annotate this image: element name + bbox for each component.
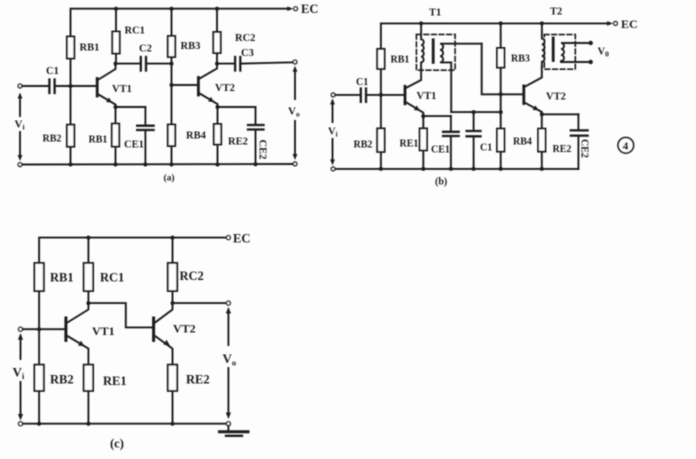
- svg-text:EC: EC: [301, 2, 318, 16]
- resistor RE1: [112, 124, 119, 147]
- wire: RC1 vertical: [87, 238, 89, 304]
- node: C1mid tap: [472, 110, 476, 114]
- transistor VT2 base bar: [197, 78, 200, 96]
- resistor RE2: [214, 124, 221, 145]
- wire: RB3/RB4 vertical: [500, 23, 502, 169]
- resistor RB1: [67, 37, 74, 59]
- VT1 collector: [406, 70, 421, 88]
- VT2 emitter: [200, 94, 218, 108]
- svg-text:VT2: VT2: [215, 83, 235, 94]
- svg-text:C1: C1: [46, 66, 59, 77]
- node: rail-T2: [540, 21, 544, 25]
- wire: RC1 vertical: [115, 9, 117, 64]
- node dots bottom rail: [379, 167, 383, 171]
- capacitor CE1: [116, 106, 146, 108]
- svg-text:RB1: RB1: [80, 43, 100, 54]
- transistor VT1 base bar: [96, 79, 99, 97]
- VT2 emitter arrow: [533, 105, 540, 112]
- node: VT1 collector: [114, 62, 118, 66]
- Vo dimension arrows: [294, 70, 296, 100]
- node: rail-RC1: [114, 7, 118, 11]
- VT2 emitter line: [155, 336, 172, 365]
- resistor RC2: [213, 32, 220, 53]
- circled 4: [618, 137, 634, 153]
- input terminal circle: [18, 84, 22, 88]
- resistor RC1: [112, 32, 119, 54]
- wire: input to C1: [335, 94, 360, 96]
- resistor RB2: [34, 365, 43, 391]
- transistor VT1 base bar: [64, 318, 67, 340]
- transistor VT2 base bar: [522, 86, 525, 104]
- svg-text:EC: EC: [233, 232, 250, 246]
- T1 primary coil: [421, 23, 424, 70]
- svg-text:VT1: VT1: [112, 84, 132, 95]
- wire: base VT2: [172, 84, 198, 86]
- resistor RB2: [377, 128, 384, 152]
- capacitor CE2: [218, 106, 256, 108]
- node dots bottom rail: [37, 422, 41, 426]
- resistor RE1: [422, 116, 424, 169]
- wire: EC top rail: [71, 9, 291, 86]
- resistor RB2: [67, 125, 74, 147]
- T2 core: [552, 38, 555, 61]
- resistor RB1: [34, 263, 43, 291]
- node: input-RB junction: [37, 327, 41, 331]
- node: RB1/RB2/base: [69, 84, 73, 88]
- resistor RC1: [84, 263, 93, 291]
- resistor RC2: [168, 263, 177, 291]
- svg-text:VT1: VT1: [417, 91, 437, 102]
- node: VT2 emitter: [540, 112, 544, 116]
- svg-text:RE1: RE1: [400, 139, 419, 150]
- VT2 collector: [200, 64, 217, 79]
- Vi dimension arrows: [19, 96, 21, 116]
- ground: [227, 426, 229, 431]
- EC terminal circle: [294, 7, 298, 11]
- svg-text:(b): (b): [435, 177, 447, 188]
- bottom terminal left: [331, 167, 335, 171]
- node: rail-RB3: [499, 21, 503, 25]
- transistor VT1 base bar: [404, 86, 407, 104]
- T2 secondary coil: [561, 43, 589, 62]
- node: VT2 collector: [215, 62, 219, 66]
- resistor RB3: [497, 48, 504, 68]
- svg-text:RE1: RE1: [103, 374, 127, 388]
- svg-text:C2: C2: [139, 44, 152, 55]
- node: rail-RC2: [171, 236, 175, 240]
- svg-text:T2: T2: [550, 7, 562, 18]
- VT1 emitter line: [67, 336, 88, 365]
- svg-text:CE2: CE2: [257, 140, 268, 160]
- wire: bottom rail: [335, 168, 578, 170]
- T1 secondary coil: [440, 44, 482, 112]
- capacitor CE1: [423, 115, 451, 117]
- wire: EC top rail: [381, 23, 610, 95]
- node: RB1/RB2/base: [379, 93, 383, 97]
- Vi dimension arrows: [20, 336, 22, 359]
- wire: secondary top to base: [482, 44, 523, 95]
- svg-text:RB3: RB3: [511, 54, 530, 65]
- output terminal top: [293, 60, 297, 64]
- svg-text:RB4: RB4: [513, 137, 532, 148]
- node: rail-RC2: [215, 7, 219, 11]
- node: base wire crossing: [499, 92, 503, 96]
- svg-text:CE2: CE2: [579, 139, 590, 158]
- VT1 emitter arrow: [78, 341, 86, 349]
- svg-text:T1: T1: [429, 8, 441, 19]
- svg-text:(a): (a): [164, 173, 175, 184]
- EC terminal circle: [614, 22, 618, 26]
- svg-text:VT2: VT2: [546, 92, 566, 103]
- bottom terminal right: [293, 162, 297, 166]
- svg-text:RC2: RC2: [180, 269, 204, 283]
- node: rail-RB3: [170, 7, 174, 11]
- svg-text:RB1: RB1: [50, 271, 74, 285]
- node: wire-RB vertical: [499, 110, 503, 114]
- transformer T1 dashed box: [416, 34, 455, 70]
- svg-text:RE2: RE2: [553, 144, 572, 155]
- T2 output terminal bottom: [589, 60, 593, 64]
- wire: input to C1: [22, 85, 49, 87]
- emitter resistor RE2 leg: [217, 107, 219, 165]
- svg-text:(c): (c): [110, 437, 124, 451]
- node dots bottom rail: [69, 163, 73, 167]
- Vi dimension arrows: [332, 101, 334, 122]
- wire: EC top rail: [39, 238, 226, 330]
- VT1 emitter: [406, 102, 423, 116]
- wire: RB2 vertical: [70, 86, 72, 165]
- VT1 collector: [99, 64, 116, 80]
- node: VT1 emitter: [421, 114, 425, 118]
- svg-text:CE1: CE1: [124, 140, 144, 151]
- node: VT1 collector: [86, 301, 90, 305]
- input terminal circle: [331, 93, 335, 97]
- VT2 emitter: [525, 103, 542, 115]
- svg-text:RB2: RB2: [354, 140, 373, 151]
- transformer T2 dashed box: [544, 35, 575, 70]
- Vo dimension arrows: [227, 310, 229, 345]
- svg-text:RB4: RB4: [186, 131, 207, 142]
- VT2 emitter arrow: [208, 97, 215, 104]
- wire: RC2 vertical: [216, 9, 218, 64]
- svg-text:C3: C3: [241, 48, 254, 59]
- bottom terminal left: [19, 422, 23, 426]
- capacitor C2: [116, 63, 141, 65]
- resistor RB3: [168, 36, 175, 57]
- capacitor CE2: [542, 113, 579, 115]
- wire: RB2 vertical: [38, 329, 40, 424]
- svg-text:RB1: RB1: [89, 135, 108, 146]
- VT2 collector line: [155, 303, 172, 322]
- svg-text:CE1: CE1: [431, 145, 450, 156]
- svg-text:RB3: RB3: [181, 41, 201, 52]
- VT1 emitter arrow: [414, 105, 421, 112]
- svg-text:4: 4: [623, 141, 629, 153]
- input terminal circle: [19, 327, 23, 331]
- svg-text:RB2: RB2: [50, 373, 74, 387]
- wire: C1 to base: [367, 94, 404, 96]
- T1 core: [432, 40, 435, 63]
- resistor RE2: [541, 114, 543, 169]
- wire: bottom rail: [22, 163, 293, 166]
- EC arrow: [287, 6, 293, 11]
- VT1 collector line: [67, 303, 88, 322]
- svg-text:EC: EC: [621, 17, 638, 31]
- VT1 emitter: [99, 95, 116, 108]
- T2 output terminal top: [589, 41, 593, 45]
- capacitor C1 mid: [473, 112, 475, 131]
- resistor RB4: [168, 125, 175, 147]
- VT1 emitter arrow: [106, 97, 113, 104]
- bottom terminal right: [226, 422, 230, 426]
- output terminal top: [226, 301, 230, 305]
- capacitor C1: [48, 80, 50, 94]
- svg-text:RC2: RC2: [235, 33, 255, 44]
- node: VT2 collector: [171, 301, 175, 305]
- svg-text:C1: C1: [480, 143, 492, 154]
- T2 primary coil: [542, 23, 545, 66]
- wire: RC2 vertical: [172, 238, 174, 304]
- EC arrow: [607, 21, 613, 26]
- svg-text:VT2: VT2: [173, 322, 196, 336]
- VT2 emitter arrow: [163, 340, 171, 348]
- bottom terminal left: [18, 163, 22, 167]
- node: rail-RC1: [86, 236, 90, 240]
- svg-text:RB2: RB2: [43, 134, 62, 145]
- resistor RB1: [377, 49, 384, 69]
- svg-text:RC1: RC1: [125, 26, 145, 37]
- wire: input to base: [23, 328, 65, 330]
- wire: C1 to base node: [55, 85, 96, 87]
- svg-text:RE2: RE2: [186, 373, 210, 387]
- wire: collector to output: [173, 302, 227, 304]
- node: VT2 base junction: [170, 83, 174, 87]
- node: rail-T1: [419, 21, 423, 25]
- svg-text:C1: C1: [356, 77, 368, 88]
- emitter resistor RE1 leg: [115, 107, 117, 165]
- transistor VT2 base bar: [152, 318, 155, 340]
- svg-text:RC1: RC1: [100, 271, 124, 285]
- capacitor C3: [217, 63, 234, 65]
- node: C2-RB3: [170, 62, 174, 66]
- VT2 collector: [525, 67, 542, 87]
- wire: RB3/RB4 vertical: [171, 9, 173, 165]
- wire: bottom rail: [23, 423, 227, 425]
- wire: RB2 vertical: [380, 95, 382, 169]
- svg-text:VT1: VT1: [92, 324, 115, 338]
- svg-text:RE2: RE2: [228, 137, 248, 148]
- resistor RE1: [84, 365, 93, 391]
- resistor RE2: [168, 365, 177, 391]
- EC terminal circle: [226, 236, 230, 240]
- wire: coupling VT1 collector to VT2 base: [88, 303, 152, 327]
- resistor RB4: [497, 129, 504, 152]
- capacitor C1: [360, 89, 362, 102]
- wire: secondary bottom horizontal: [451, 111, 501, 113]
- svg-text:RB1: RB1: [391, 55, 410, 66]
